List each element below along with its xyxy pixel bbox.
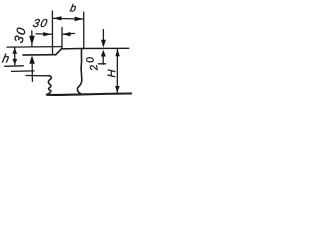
- dimension 20 bottom tick: [98, 63, 105, 65]
- arrowhead 30-left up (below tongue face): [29, 56, 35, 64]
- arrowhead b left: [53, 16, 62, 20]
- dimension 20 lower shaft: [102, 52, 104, 64]
- dimension h shaft: [14, 48, 16, 65]
- extension line y=71.2: [12, 70, 35, 73]
- part outline: bottom face (thick, extends right): [47, 93, 132, 94]
- extension line x=83.7 (b right): [83, 12, 85, 48]
- dimension 30 (left) upper shaft: [31, 31, 33, 37]
- arrowhead 20 up (below face line): [101, 50, 106, 57]
- arrowhead 30-top pointing right: [43, 32, 51, 36]
- arrowhead 30-left down (above line): [29, 36, 35, 46]
- extension line y=46.8 (left, for h and 30): [7, 46, 61, 49]
- arrowhead 20 down (above face line): [101, 40, 106, 48]
- extension line y=66 (h bottom): [5, 65, 24, 68]
- svg-text:30: 30: [32, 17, 50, 30]
- break line (freehand squiggle, left boundary): [47, 76, 51, 95]
- arrowhead H down: [115, 86, 120, 93]
- part outline: tongue top face: [23, 54, 56, 56]
- dimension line 30 (top) right tail: [62, 32, 74, 35]
- part outline: right edge (wobbly): [77, 49, 81, 94]
- part outline: chamfer: [56, 49, 62, 55]
- arrowhead H up: [115, 49, 120, 56]
- arrowhead 30-top pointing left: [62, 32, 70, 36]
- dimension line 30 (top) left part with tail: [36, 33, 52, 36]
- arrowhead b right: [75, 17, 84, 22]
- dimensioned cross-section technical drawing: [0, 0, 132, 99]
- arrowhead h up: [12, 48, 17, 54]
- dimension 20 upper shaft: [102, 30, 104, 44]
- extension line y=75.7 (to break line): [26, 75, 49, 77]
- dimension H shaft: [116, 49, 118, 92]
- dimension 30 (left) lower shaft: [31, 58, 33, 81]
- arrowhead h down: [13, 59, 18, 65]
- extension line x=52.5 (b left / 30 right): [51, 11, 53, 54]
- dimension line b: [53, 17, 83, 20]
- part outline: top-right face + extension to right: [61, 47, 128, 50]
- svg-text:H: H: [106, 69, 118, 77]
- extension line x=62 (30 top right): [61, 28, 63, 49]
